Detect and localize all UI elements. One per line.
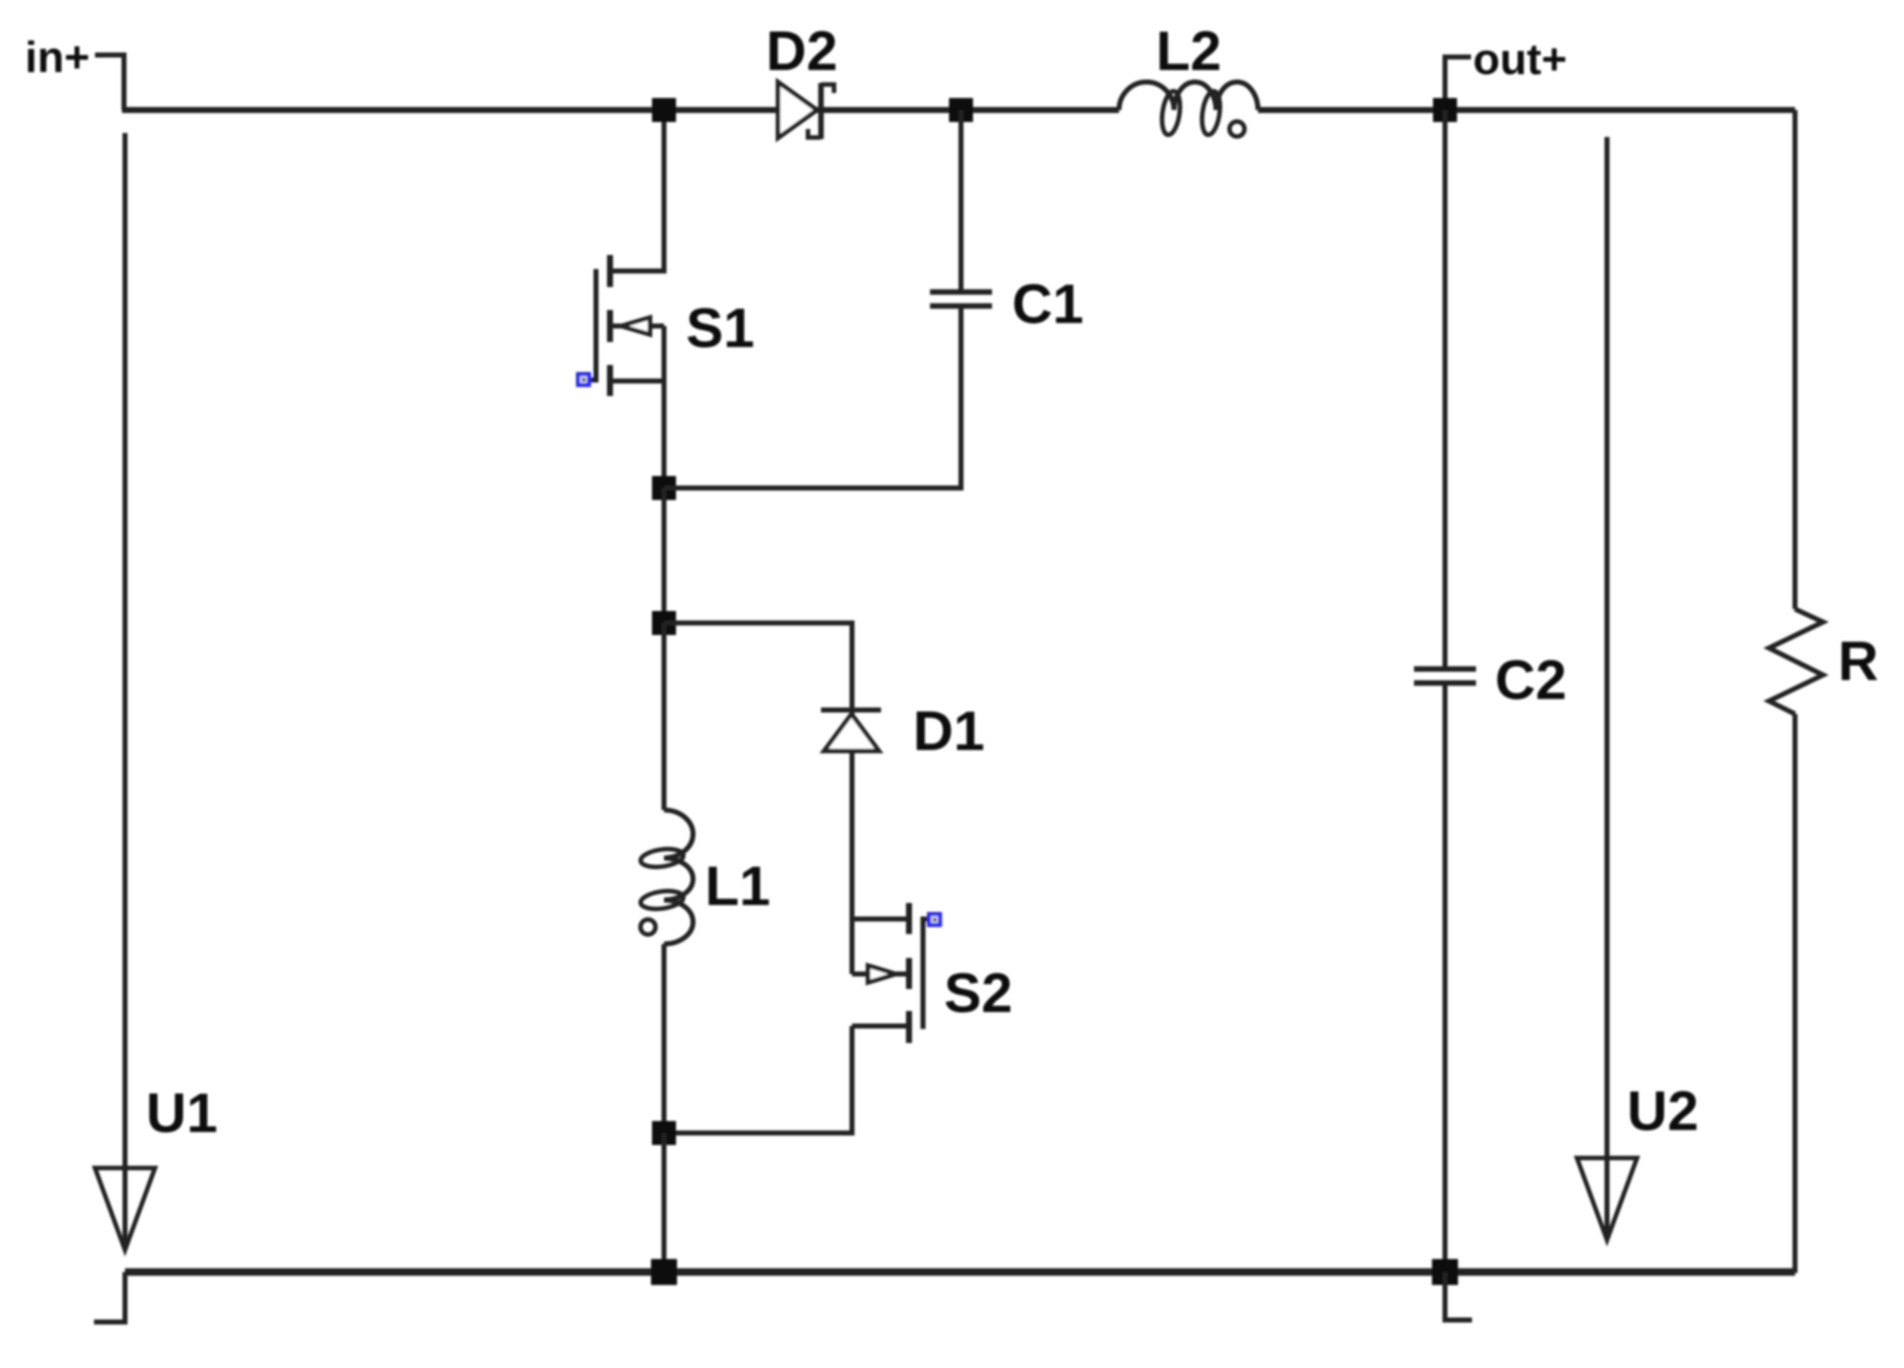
svg-text:R: R xyxy=(1838,629,1878,692)
svg-text:S2: S2 xyxy=(944,961,1013,1024)
wire S1 source to C1 bottom xyxy=(664,306,961,488)
wire D1 branch upper xyxy=(664,623,852,710)
svg-text:C2: C2 xyxy=(1495,648,1567,711)
wire bottom rail xyxy=(125,1268,1795,1276)
wire C1 top lead xyxy=(959,110,964,292)
inductor L1 xyxy=(640,623,693,1133)
voltage source U1 xyxy=(95,133,155,1250)
wire right rail lower xyxy=(1793,714,1798,1273)
capacitor C2 xyxy=(1414,669,1476,683)
wire S1 node to L1 node xyxy=(662,488,667,623)
node A (S1 drain / top rail) xyxy=(652,98,676,122)
wire in+ terminal stub xyxy=(95,55,124,110)
svg-text:D2: D2 xyxy=(766,19,838,82)
gate pin marker S1 (blue square) xyxy=(576,372,591,387)
wire C2 column lower xyxy=(1443,683,1448,1272)
transistor S2 xyxy=(852,903,928,1043)
wire top rail right segment xyxy=(1258,107,1795,113)
svg-text:out+: out+ xyxy=(1473,35,1567,84)
wire out- terminal hook xyxy=(1445,1272,1472,1320)
node L1 bottom xyxy=(652,1121,676,1145)
node out+ (top rail / C2 column) xyxy=(1433,98,1457,122)
wire S1 drain from node A xyxy=(610,110,664,271)
svg-text:U2: U2 xyxy=(1627,1079,1699,1142)
wire top rail left segment xyxy=(122,107,1119,113)
diode D2 xyxy=(778,82,834,139)
wire C2 column upper xyxy=(1443,110,1448,669)
diode D1 xyxy=(821,710,881,751)
wire in- terminal hook xyxy=(94,1272,125,1322)
node B (C1 top / top rail) xyxy=(949,98,973,122)
inductor L2 xyxy=(1119,82,1258,137)
wire D1 to S2 xyxy=(850,712,855,974)
svg-text:L2: L2 xyxy=(1156,19,1221,82)
svg-text:C1: C1 xyxy=(1012,272,1084,335)
node bottom rail right xyxy=(1432,1259,1458,1285)
capacitor C1 xyxy=(930,292,992,306)
wire S2 source to L1 bottom node xyxy=(664,1026,852,1133)
svg-text:U1: U1 xyxy=(146,1081,218,1144)
node S1 source xyxy=(652,476,676,500)
wire out+ terminal stub xyxy=(1445,57,1471,110)
node L1 top xyxy=(652,611,676,635)
svg-text:L1: L1 xyxy=(705,854,770,917)
voltage source U2 xyxy=(1577,137,1637,1240)
resistor R xyxy=(1769,609,1823,714)
gate pin marker S2 (blue square) xyxy=(927,912,942,927)
transistor S1 xyxy=(589,255,664,488)
wire L1 bottom to ground rail xyxy=(662,1133,667,1272)
svg-text:D1: D1 xyxy=(913,699,985,762)
svg-text:S1: S1 xyxy=(686,296,755,359)
wire right rail upper xyxy=(1793,110,1798,609)
node bottom rail center xyxy=(651,1259,677,1285)
svg-text:in+: in+ xyxy=(25,33,90,82)
